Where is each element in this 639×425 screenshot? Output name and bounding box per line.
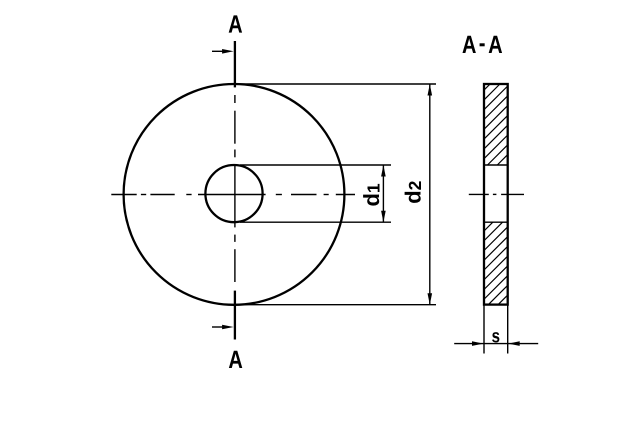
s extension line right (507, 305, 509, 354)
s dimension line with inward arrows (454, 341, 538, 346)
hole circle (washer inner diameter) (205, 165, 262, 222)
section centerline (469, 193, 524, 195)
vertical centerline (234, 95, 236, 282)
hatching lower section area (484, 222, 508, 304)
d1 extension line bottom (240, 221, 391, 223)
label A top (229, 15, 242, 32)
d2 label (405, 181, 421, 203)
section title A-A (462, 36, 502, 53)
cutting plane line top (thick) (234, 41, 236, 87)
section hole edge top (484, 164, 508, 166)
d2 extension line bottom (240, 304, 436, 306)
d1 label (363, 184, 379, 206)
horizontal centerline (111, 194, 355, 196)
s label (492, 332, 499, 342)
section hole edge bottom (484, 221, 508, 223)
section outline rectangle (484, 84, 508, 305)
d2 extension line top (240, 83, 436, 85)
cutting plane line bottom (thick) (234, 291, 236, 340)
s extension line left (483, 305, 485, 354)
d2 dimension line with arrows (428, 84, 433, 305)
cutting plane arrow bottom (212, 325, 234, 330)
cutting plane arrow top (212, 49, 234, 54)
d1 extension line top (240, 164, 391, 166)
label A bottom (229, 351, 242, 368)
d1 dimension line with arrows (381, 165, 386, 222)
outer circle (washer outside diameter) (124, 84, 345, 305)
hatching upper section area (484, 84, 508, 165)
